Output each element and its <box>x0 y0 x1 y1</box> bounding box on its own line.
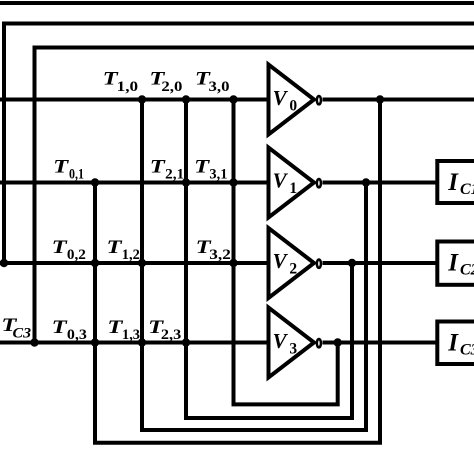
svg-text:T: T <box>52 237 69 258</box>
svg-text:T: T <box>150 156 167 177</box>
svg-text:3: 3 <box>289 341 297 358</box>
svg-text:1,3: 1,3 <box>122 327 140 343</box>
svg-text:T: T <box>52 317 69 338</box>
svg-text:V: V <box>273 249 289 273</box>
svg-text:V: V <box>273 329 289 353</box>
svg-text:0: 0 <box>289 98 297 115</box>
svg-text:I: I <box>447 169 459 196</box>
svg-text:1,2: 1,2 <box>122 247 140 263</box>
svg-text:3,0: 3,0 <box>209 79 230 95</box>
svg-text:C2: C2 <box>460 261 474 278</box>
svg-text:C3: C3 <box>13 326 32 342</box>
svg-text:I: I <box>447 249 459 276</box>
svg-text:1: 1 <box>289 180 297 197</box>
svg-text:3,2: 3,2 <box>209 247 231 263</box>
svg-text:T: T <box>194 156 211 177</box>
svg-text:C1: C1 <box>460 181 474 198</box>
svg-text:2,1: 2,1 <box>165 166 184 182</box>
svg-text:I: I <box>447 329 459 356</box>
svg-text:2,0: 2,0 <box>161 79 182 95</box>
svg-text:V: V <box>273 86 289 110</box>
svg-text:T: T <box>53 156 70 177</box>
svg-text:3,1: 3,1 <box>209 166 227 182</box>
svg-text:0,2: 0,2 <box>67 247 86 263</box>
svg-text:0,1: 0,1 <box>69 166 84 182</box>
svg-text:2: 2 <box>289 261 297 278</box>
svg-text:V: V <box>273 169 289 193</box>
svg-text:1,0: 1,0 <box>117 79 139 95</box>
svg-text:0,3: 0,3 <box>67 327 87 343</box>
svg-text:T: T <box>107 237 124 258</box>
svg-text:C3: C3 <box>460 341 474 358</box>
svg-text:2,3: 2,3 <box>161 327 181 343</box>
